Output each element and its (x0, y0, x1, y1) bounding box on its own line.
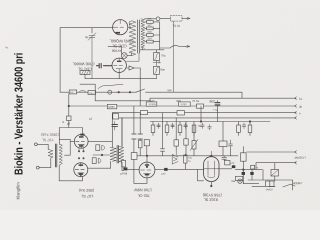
svg-text:CMa: CMa (89, 92, 94, 95)
svg-text:CDE SL: CDE SL (111, 44, 126, 49)
svg-text:4a: 4a (5, 45, 9, 49)
input terminal 1 (35, 143, 38, 146)
wire anode V1 (128, 26, 130, 28)
capacitor C5 (138, 134, 143, 139)
line B (256, 163, 296, 170)
wire secondary bottom to V4 (59, 165, 82, 181)
svg-text:+7a: +7a (213, 108, 218, 112)
rotated labels (upside-down print) (41, 24, 222, 202)
wire grid feed top (60, 27, 113, 29)
tap loop (59, 139, 74, 155)
svg-text:7M: 7M (156, 124, 161, 128)
anode wire V2 upper (126, 53, 139, 61)
resistor box R8 (88, 91, 96, 95)
svg-text:DMC9: DMC9 (266, 188, 273, 191)
box Gr (131, 153, 137, 160)
svg-text:4(9)M/7: 4(9)M/7 (293, 181, 303, 185)
terminal c (294, 111, 296, 114)
svg-text:Biokin - Verstärker 34600 pri: Biokin - Verstärker 34600 pri (11, 53, 24, 175)
capacitor block dark (164, 168, 167, 171)
svg-text:µ79: µ79 (230, 162, 235, 165)
switch lever mid (98, 84, 123, 88)
wire y186.6 with switch S3 (252, 186, 275, 188)
svg-text:70 SL: 70 SL (172, 24, 180, 28)
svg-text:70a: 70a (161, 54, 166, 58)
jack J1 (156, 17, 160, 21)
fuse F2 (154, 66, 160, 74)
resistor R3 (147, 34, 154, 37)
terminal b (294, 105, 296, 108)
svg-text:µP58: µP58 (121, 171, 128, 175)
tap wires (140, 19, 164, 50)
svg-text:1706 N9W: 1706 N9W (134, 188, 152, 192)
resistor box R11 (177, 111, 185, 115)
svg-text:302: 302 (147, 24, 152, 27)
wire drops to mid bus (112, 68, 186, 156)
wire output arrow 1 (160, 17, 190, 19)
svg-text:1a: 1a (299, 97, 303, 101)
bus y78.7 (85, 75, 157, 79)
output tube V6 (204, 157, 219, 182)
tube V4 (74, 163, 88, 177)
RC cluster 2 (166, 122, 168, 136)
bus y180 (248, 180, 293, 190)
bus y117.9 (115, 117, 296, 119)
capacitor C3 (217, 101, 219, 122)
capacitor C8 (222, 156, 227, 161)
bus y121.5 (150, 121, 270, 123)
resistor R14 (67, 116, 71, 121)
svg-text:5Y805: 5Y805 (148, 103, 156, 106)
resistor box R10 (141, 110, 148, 114)
potentiometer P1 (192, 141, 196, 150)
tube V1 (113, 20, 128, 35)
box DMC (236, 176, 243, 180)
resistor R20 (241, 153, 247, 161)
svg-text:4Y836: 4Y836 (112, 49, 122, 53)
resistor R4 (147, 40, 154, 43)
transformer T3 right winding (119, 147, 124, 163)
svg-text:(709) WQ66L: (709) WQ66L (109, 39, 134, 44)
input terminal 2 (36, 166, 39, 169)
svg-text:8an: 8an (160, 68, 165, 72)
svg-text:Y07 SL: Y07 SL (42, 138, 54, 142)
svg-text:4M/GO/T: 4M/GO/T (294, 156, 306, 160)
svg-text:(709) W066L: (709) W066L (73, 62, 95, 66)
resistor box R12 (197, 104, 204, 108)
resistor box on x176 (174, 140, 178, 146)
terminal B (294, 161, 296, 164)
meter circle M1 (238, 179, 242, 183)
transformer T3 left winding (110, 147, 116, 161)
svg-text:5M80: 5M80 (108, 106, 115, 109)
svg-text:86C: 86C (210, 100, 217, 104)
bus y169.4 (155, 168, 204, 170)
resistor R18 (184, 155, 187, 163)
switch S2 (136, 89, 145, 92)
wire screen tap (91, 28, 93, 33)
RC cluster 4 (238, 122, 240, 136)
svg-text:7M: 7M (170, 124, 175, 128)
svg-text:301: 301 (147, 18, 152, 21)
svg-text:L07 SL: L07 SL (81, 194, 93, 198)
terminal a (294, 97, 296, 100)
grid cap V3 (80, 134, 84, 136)
wire y168 (88, 161, 111, 168)
svg-text:µ9: µ9 (67, 121, 71, 125)
bus y100.8 (95, 98, 296, 101)
capacitor dark C10 (242, 172, 245, 175)
wire y183.7 (243, 183, 258, 185)
choke symbol (172, 150, 178, 164)
RC pair grid 1 (96, 145, 100, 151)
junction blob (123, 167, 127, 170)
switch S3 (283, 184, 295, 187)
vertical x68.8 (68, 94, 70, 128)
RC cluster 3b (192, 125, 196, 133)
terminal A (294, 151, 296, 154)
bus y106 (69, 105, 296, 107)
transformer T1 secondary (59, 144, 62, 165)
tube V2 (112, 58, 126, 72)
transformer T3 core (117, 146, 118, 164)
line A anode supply (247, 151, 297, 153)
fuse F1 (156, 50, 158, 53)
resistor R10b (138, 140, 142, 148)
tube pins (79, 148, 84, 150)
resistor box above V5 (144, 140, 149, 146)
svg-text:7M: 7M (198, 124, 203, 128)
RC cluster 3 (179, 122, 181, 136)
cathode drop V2 (118, 73, 120, 79)
svg-text:4µ: 4µ (85, 35, 89, 39)
wire V3 to T3 (88, 140, 112, 142)
transformer T1 core (55, 144, 56, 167)
resistor box R8b (107, 104, 117, 108)
svg-text:µ1: µ1 (89, 116, 93, 120)
terminal d (294, 117, 296, 120)
capacitor C4 (132, 134, 137, 139)
svg-text:(852 Xa): (852 Xa) (78, 188, 94, 193)
svg-text:4b: 4b (299, 105, 303, 109)
resistor R1 (147, 21, 154, 24)
box DMC2 (266, 181, 275, 187)
svg-text:705 OL: 705 OL (137, 193, 149, 197)
capacitor bold Cm (112, 125, 118, 127)
svg-text:µ40: µ40 (161, 173, 166, 176)
wire left drop (59, 28, 61, 93)
transformer T2 core (138, 20, 140, 53)
bus y92.2 (60, 92, 242, 98)
wire y155 (93, 154, 110, 156)
resistor box R11b (179, 102, 191, 106)
wire secondary top up (59, 128, 82, 145)
jack J2 (108, 90, 112, 94)
grid arrow symbol (126, 66, 140, 70)
resistor R17 (122, 160, 126, 167)
RC cluster 5 (249, 122, 251, 136)
capacitor dark C11 (250, 172, 253, 175)
svg-text:(766 5Y38): (766 5Y38) (202, 193, 222, 198)
bus y112.7 (112, 112, 296, 114)
tube V5 (139, 162, 155, 178)
transformer T2 secondary (141, 19, 145, 48)
svg-text:7M: 7M (184, 124, 189, 128)
trimmer capacitor C1 (88, 33, 96, 79)
stub V5 top to bus (146, 156, 148, 162)
svg-text:70 SL: 70 SL (192, 99, 200, 103)
svg-text:5Y80: 5Y80 (180, 103, 187, 106)
resistor box R19 (225, 161, 230, 165)
svg-text:303: 303 (147, 31, 152, 34)
anode wire V6 (219, 168, 232, 170)
resistor box R13 (219, 141, 227, 147)
junction dots (118, 91, 120, 93)
transformer T2 primary (129, 21, 136, 56)
small box B2 (251, 165, 255, 169)
svg-text:304: 304 (147, 37, 152, 40)
resistor R2 (147, 27, 154, 30)
wires T3 (112, 118, 123, 171)
RC pair grid 2 (92, 158, 96, 164)
transformer T1 primary (48, 149, 53, 158)
resistor box R9 (146, 102, 157, 106)
wire meter drop (173, 21, 175, 92)
title Biokin-Verstärker 34600 pri (11, 53, 24, 200)
resistor box on x186 (184, 139, 188, 145)
svg-text:(1850 Xab): (1850 Xab) (41, 132, 59, 136)
box mid B3 (113, 114, 119, 119)
capacitor C6 (229, 140, 233, 150)
svg-text:CDC SL: CDC SL (78, 67, 92, 71)
resistor box R7 (69, 90, 77, 94)
capacitor dark C9 (232, 165, 236, 168)
svg-text:Ga: Ga (231, 179, 235, 183)
meter box dashed (171, 16, 183, 21)
svg-text:Klangfilm: Klangfilm (15, 182, 20, 200)
svg-text:5M: 5M (168, 88, 173, 92)
relay box K1 (271, 170, 279, 177)
wire to V6 bottom (198, 169, 204, 180)
switch S1 (160, 46, 190, 48)
cathode bar V1 (116, 32, 121, 34)
wire y84.2 (80, 84, 95, 101)
bus y155.8 (137, 155, 238, 157)
RC cluster 1 (152, 122, 154, 136)
lamp L1 (121, 53, 127, 59)
jumper loop (79, 90, 86, 92)
capacitor C2 grid (97, 64, 113, 68)
resistor hatched R6 (80, 71, 90, 75)
vertical through Gr down to V5 bottom (134, 159, 147, 183)
svg-text:910Z SL: 910Z SL (204, 197, 218, 201)
tube V3 (74, 135, 88, 149)
